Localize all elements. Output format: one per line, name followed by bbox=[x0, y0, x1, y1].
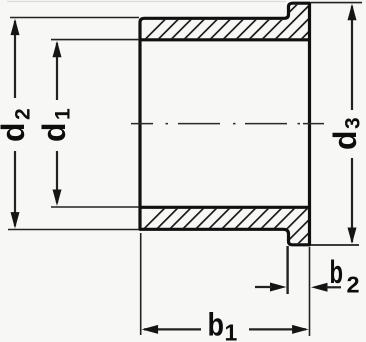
extension line d2 top bbox=[10, 17, 139, 19]
faint scan border top bbox=[7, 1, 286, 3]
arrow b2 left shaft bbox=[255, 286, 272, 288]
svg-text:3: 3 bbox=[342, 117, 365, 129]
svg-text:d: d bbox=[327, 130, 363, 150]
extension line d2 bottom bbox=[8, 229, 139, 231]
label d2 bbox=[0, 108, 35, 142]
arrow b2 right shaft bbox=[326, 286, 341, 288]
arrow b2 right (points left) bbox=[311, 283, 328, 292]
arrow d1 down bbox=[53, 190, 62, 207]
arrow b1 right bbox=[292, 325, 309, 334]
label b2 bbox=[330, 254, 360, 298]
arrow b2 left (points right) bbox=[270, 283, 287, 292]
extension line b1/b2 right bbox=[309, 247, 311, 336]
bore bottom edge bbox=[140, 206, 310, 209]
svg-text:2: 2 bbox=[347, 272, 360, 298]
centerline bbox=[131, 123, 324, 125]
hatching bottom section (wall + flange) bbox=[123, 200, 342, 250]
dimension line d3 bbox=[351, 6, 353, 242]
arrow b1 left bbox=[142, 325, 159, 334]
svg-text:2: 2 bbox=[12, 108, 35, 120]
arrow d3 down bbox=[348, 228, 357, 245]
bore top edge bbox=[140, 38, 310, 41]
svg-text:d: d bbox=[0, 122, 31, 142]
dimension line b1 bbox=[144, 328, 306, 330]
label d1 bbox=[36, 108, 75, 142]
arrow d1 up bbox=[53, 41, 62, 58]
dimension line d2 bbox=[14, 21, 16, 226]
arrow d2 down bbox=[11, 212, 20, 229]
extension line d1 bottom bbox=[51, 206, 139, 208]
extension line b2 left bbox=[286, 246, 288, 294]
extension line d3 top bbox=[311, 2, 362, 4]
svg-text:d: d bbox=[36, 122, 72, 142]
svg-text:b: b bbox=[330, 254, 344, 290]
label d3 bbox=[327, 117, 365, 150]
arrow d2 up bbox=[11, 19, 20, 35]
svg-text:1: 1 bbox=[52, 108, 75, 120]
hatching top section (wall + flange) bbox=[140, 0, 341, 45]
extension line b1 left bbox=[140, 233, 142, 335]
label b1 bbox=[208, 307, 238, 342]
svg-text:1: 1 bbox=[225, 320, 238, 342]
dimension line d1 bbox=[56, 43, 58, 203]
extension line d3 bottom bbox=[311, 244, 359, 246]
arrow d3 up bbox=[348, 4, 357, 21]
svg-text:b: b bbox=[208, 307, 225, 342]
bushing body outline bbox=[140, 3, 310, 245]
extension line d1 top bbox=[51, 39, 139, 41]
